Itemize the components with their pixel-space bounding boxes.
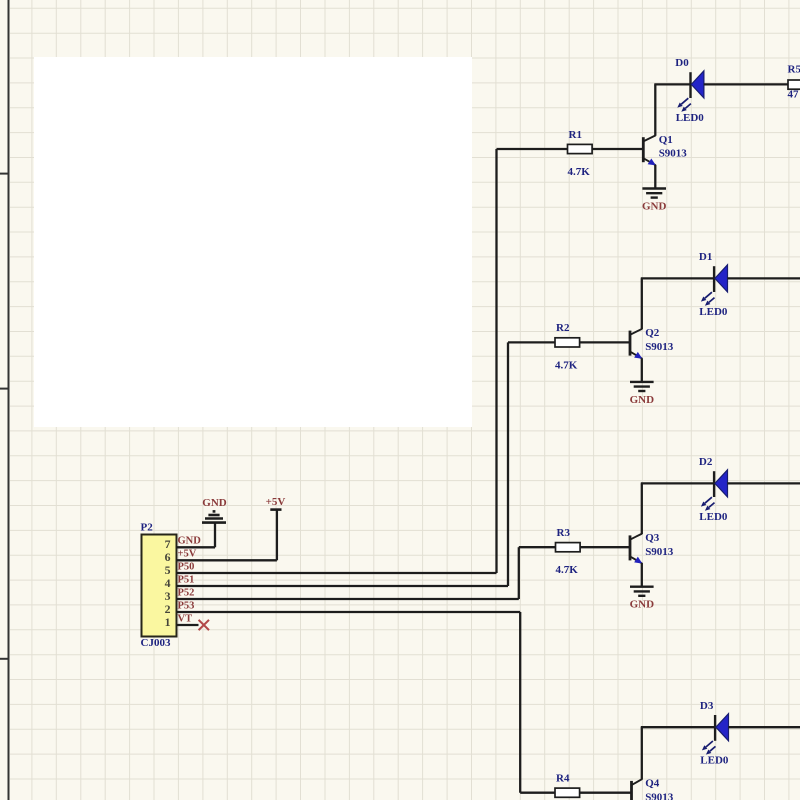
wire (collector of Q2) — [641, 278, 643, 329]
wire (LED D3 anode) — [641, 726, 715, 728]
svg-text:P52: P52 — [178, 587, 195, 598]
svg-text:P53: P53 — [178, 600, 195, 611]
svg-text:1: 1 — [165, 615, 171, 629]
svg-text:Q1: Q1 — [659, 134, 673, 146]
wire — [580, 792, 631, 794]
wire (net P53 to R4) — [520, 792, 555, 794]
svg-text:P2: P2 — [141, 522, 154, 534]
svg-text:R1: R1 — [569, 129, 582, 141]
wire (emitter of Q3) — [641, 563, 643, 586]
wire (pin 7 to ground symbol) — [214, 524, 216, 548]
power +5V bar symbol — [270, 508, 281, 511]
LED D2 — [713, 471, 715, 497]
connector P2 — [142, 535, 177, 637]
power ground symbol — [213, 510, 216, 513]
svg-text:CJ003: CJ003 — [141, 637, 171, 649]
svg-text:S9013: S9013 — [645, 546, 674, 558]
svg-text:VT: VT — [178, 613, 193, 624]
svg-text:D3: D3 — [700, 700, 714, 712]
svg-text:47: 47 — [788, 89, 800, 101]
svg-text:D2: D2 — [699, 456, 713, 468]
wire (pin 4 net P51) — [177, 585, 509, 587]
svg-text:4.7K: 4.7K — [568, 166, 591, 178]
wire (pin 6 to +5V symbol) — [276, 510, 278, 561]
svg-text:Q4: Q4 — [645, 778, 660, 790]
wire (collector of Q4) — [641, 727, 643, 779]
resistor R4 — [555, 788, 580, 797]
transistor Q4 — [630, 781, 633, 800]
wire (pin 3 net P52) — [177, 598, 519, 600]
resistor R3 — [556, 543, 581, 552]
wire (LED D0 cathode) — [704, 83, 800, 85]
svg-text:GND: GND — [642, 201, 667, 213]
wire (net P52 to R3) — [519, 546, 556, 548]
wire (pin 7 GND stub) — [177, 546, 216, 548]
svg-text:R5: R5 — [788, 64, 800, 76]
resistor R1 — [568, 144, 593, 153]
wire (LED D3 cathode) — [728, 726, 800, 728]
wire (emitter of Q1) — [654, 165, 656, 188]
wire (collector of Q3) — [641, 483, 643, 534]
wire (pin 2 net P53) — [177, 611, 521, 613]
wire (net P51 to R2) — [508, 341, 555, 343]
svg-text:4.7K: 4.7K — [556, 564, 579, 576]
svg-text:Q3: Q3 — [645, 532, 660, 544]
LED emission arrows of D1 — [705, 292, 712, 298]
wire (LED D2 cathode) — [727, 482, 800, 484]
svg-text:R3: R3 — [557, 527, 571, 539]
svg-text:GND: GND — [630, 394, 655, 406]
wire (net P51 vertical feed to R2) — [507, 342, 509, 586]
wire (LED D0 anode) — [654, 83, 690, 85]
svg-text:GND: GND — [630, 599, 655, 611]
wire — [580, 341, 630, 343]
svg-text:S9013: S9013 — [645, 341, 674, 353]
wire (emitter of Q2) — [641, 358, 643, 381]
svg-text:P50: P50 — [178, 561, 195, 572]
wire (LED D1 cathode) — [727, 277, 800, 279]
wire (net P53 vertical feed to R4) — [519, 612, 521, 793]
svg-text:LED0: LED0 — [700, 755, 729, 767]
resistor R5 — [788, 80, 800, 89]
svg-text:LED0: LED0 — [699, 511, 728, 523]
svg-text:2: 2 — [165, 602, 171, 616]
svg-text:Q2: Q2 — [645, 327, 660, 339]
svg-text:S9013: S9013 — [659, 148, 688, 160]
no-connect X on pin 1 — [199, 620, 209, 630]
wire (pin 5 net P50) — [177, 572, 497, 574]
svg-text:D0: D0 — [675, 57, 689, 69]
ground symbol at Q2 — [630, 381, 654, 383]
svg-text:5: 5 — [165, 563, 171, 577]
wire (net P50 to R1) — [497, 148, 568, 150]
svg-text:GND: GND — [178, 536, 202, 547]
svg-text:R4: R4 — [556, 773, 570, 785]
svg-text:GND: GND — [202, 497, 227, 509]
LED D1 — [713, 266, 715, 292]
transistor Q3 — [629, 535, 632, 560]
wire (LED D2 anode) — [641, 482, 714, 484]
svg-text:LED0: LED0 — [699, 306, 728, 318]
svg-text:D1: D1 — [699, 251, 712, 263]
wire — [580, 546, 629, 548]
LED D3 — [714, 715, 716, 741]
svg-text:+5V: +5V — [178, 549, 197, 560]
wire (net P52 vertical feed to R3) — [518, 547, 520, 599]
wire (collector of Q1) — [654, 84, 656, 135]
svg-text:7: 7 — [165, 537, 171, 551]
svg-text:4: 4 — [165, 576, 171, 590]
wire (pin 6 +5V stub) — [177, 559, 277, 561]
wire — [592, 148, 642, 150]
wire (LED D1 anode) — [641, 277, 714, 279]
wire (net P50 vertical feed to R1) — [495, 149, 497, 573]
ground symbol at Q3 — [630, 586, 654, 588]
svg-text:P51: P51 — [178, 574, 195, 585]
transistor Q2 — [629, 331, 632, 356]
svg-text:3: 3 — [165, 589, 171, 603]
svg-text:LED0: LED0 — [676, 112, 705, 124]
LED emission arrows of D3 — [706, 741, 713, 747]
LED emission arrows of D0 — [681, 98, 688, 104]
wire (pin 1 VT stub) — [177, 624, 199, 626]
LED emission arrows of D2 — [705, 497, 712, 503]
svg-text:+5V: +5V — [266, 496, 286, 508]
svg-text:R2: R2 — [556, 322, 570, 334]
resistor R2 — [555, 338, 580, 347]
svg-text:4.7K: 4.7K — [555, 359, 578, 371]
ground symbol at Q1 — [642, 187, 666, 189]
svg-text:S9013: S9013 — [645, 791, 674, 800]
LED D0 — [689, 72, 691, 98]
transistor Q1 — [642, 137, 645, 162]
